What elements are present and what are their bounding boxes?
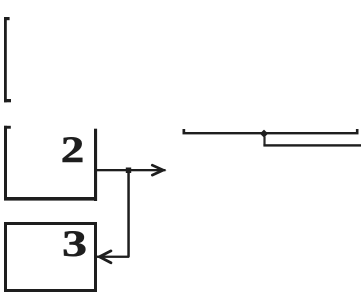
wire drop from junction	[263, 137, 265, 146]
box 3	[6, 224, 96, 291]
box 2	[4, 126, 97, 201]
arrowhead left into box 3	[99, 251, 111, 263]
top-right wire (clipped box top edge)	[183, 129, 359, 134]
arrowhead right	[152, 165, 163, 175]
wire into box 3	[97, 256, 130, 258]
junction dot on top-right wire	[260, 130, 268, 138]
junction dot	[126, 168, 131, 174]
svg-text:2: 2	[61, 130, 85, 171]
svg-text:3: 3	[62, 224, 87, 265]
wire down from junction	[127, 173, 130, 257]
box 1 (clipped left bracket remnant)	[4, 17, 11, 102]
lower wire to right edge	[263, 144, 361, 146]
wire from box 2 to the right	[96, 169, 166, 171]
